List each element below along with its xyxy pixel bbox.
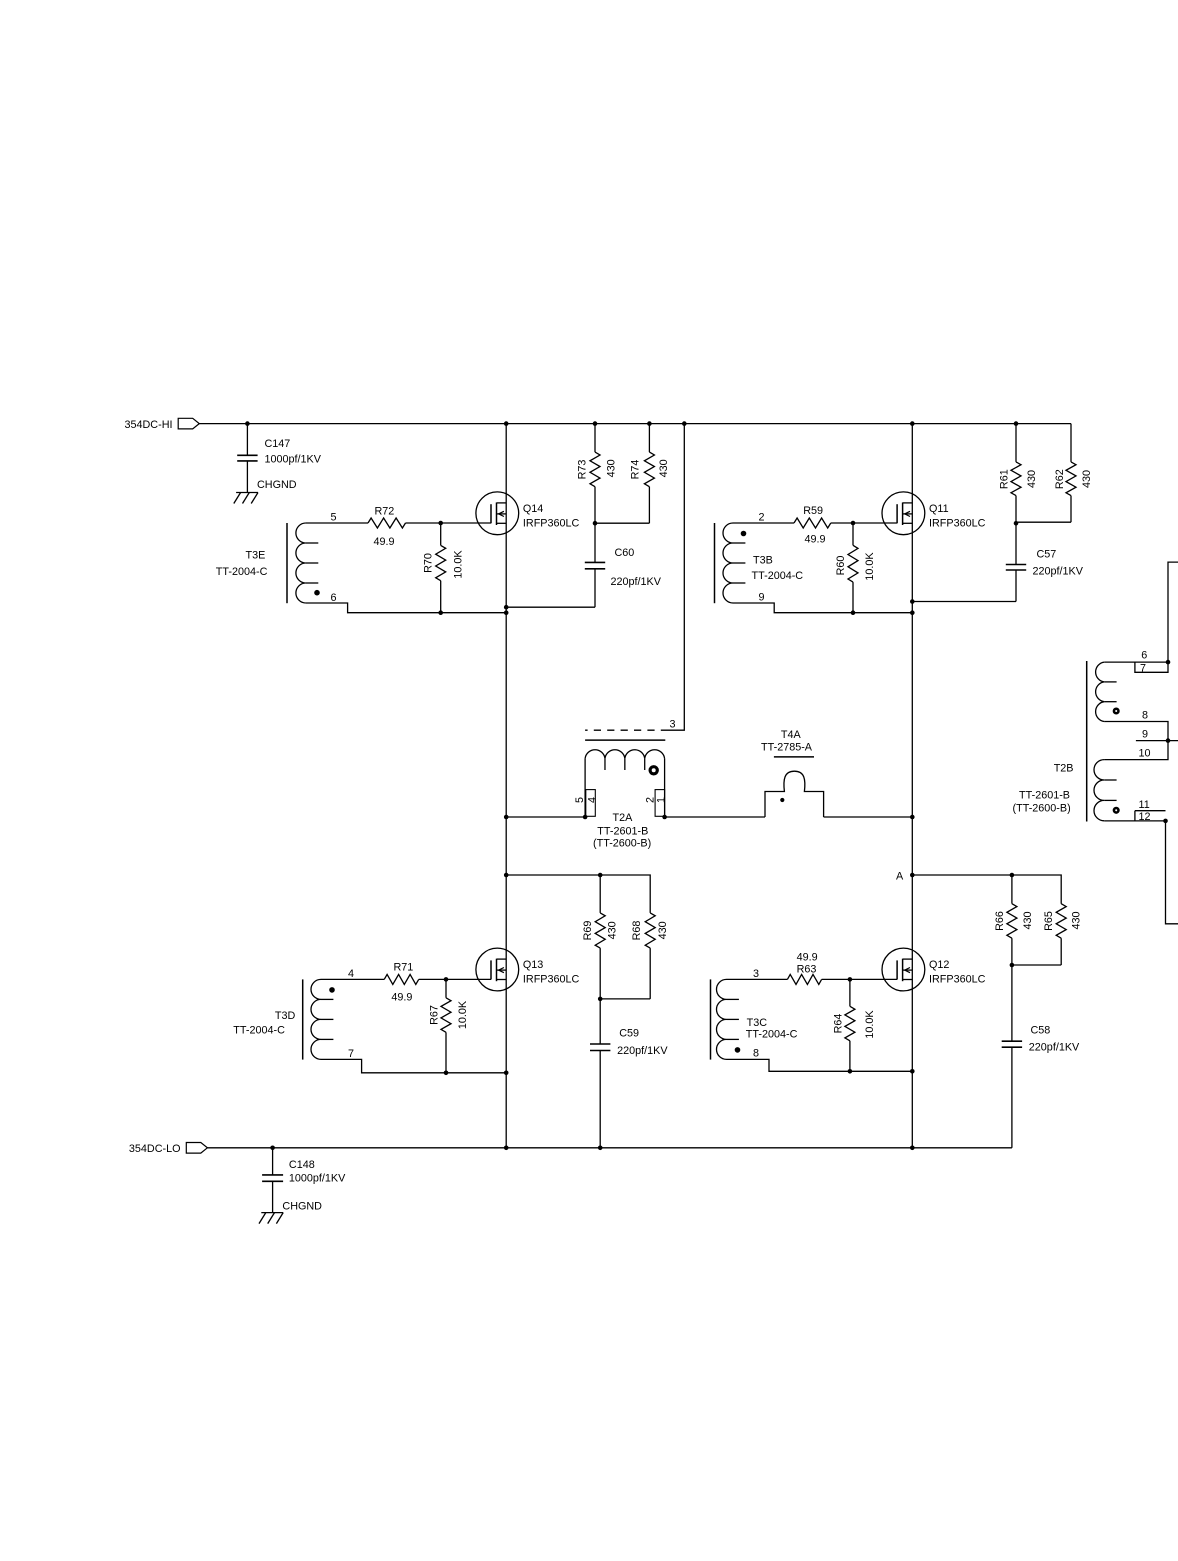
wire 354DC-HI rail (top) (199, 423, 1071, 425)
svg-text:C58: C58 (1031, 1025, 1051, 1037)
wire R62 bottom to R61 (1016, 521, 1071, 523)
junction Q11 gate / R60 (851, 521, 856, 526)
wire R65 bottom to R66 (1012, 964, 1061, 966)
junction R69/R68/C59 node (598, 997, 603, 1002)
svg-text:R70: R70 (423, 553, 435, 573)
T2A polarity ring (650, 767, 657, 774)
junction R69 top (598, 873, 603, 878)
svg-text:CHGND: CHGND (282, 1200, 322, 1212)
junction bottom rail / C59 (598, 1146, 603, 1151)
wire T3C pin3 to R63 (727, 978, 788, 980)
svg-text:430: 430 (1026, 470, 1038, 488)
wire T2B pin11 (1135, 810, 1166, 812)
svg-text:C59: C59 (619, 1027, 639, 1039)
resistor R73 (594, 424, 596, 453)
junction R61/R62/C57 node (1014, 521, 1019, 526)
junction R73/R74/C60 node (593, 521, 598, 526)
capacitor C147 (237, 454, 257, 456)
wire T3D pin4 to R71 (321, 978, 384, 980)
transformer T3D core bar (302, 979, 304, 1059)
svg-text:10: 10 (1139, 748, 1151, 760)
transformer T3D winding (311, 979, 321, 1059)
wire R74 bottom to R73 (595, 522, 649, 524)
transformer T2B upper winding (1096, 662, 1105, 721)
wire left rail to T2A pin5/4 (506, 816, 585, 818)
junction top rail / Q11 drain (910, 421, 915, 426)
svg-text:R72: R72 (375, 506, 395, 518)
junction R67 bottom / gate return (444, 1071, 449, 1076)
svg-text:49.9: 49.9 (805, 534, 826, 546)
wire left half-bridge rail (505, 424, 507, 1148)
junction T2A pin5/4 (583, 815, 588, 820)
junction R70 bottom / gate return (438, 610, 443, 615)
junction Q14 gate / R70 (438, 521, 443, 526)
svg-text:R73: R73 (576, 460, 588, 480)
junction gate return / left rail (top) (504, 610, 509, 615)
wire R68 bottom to R69 (600, 998, 650, 1000)
wire C147 top lead (246, 424, 248, 456)
wire T2A pin1 lead (664, 759, 666, 817)
svg-text:TT-2601-B: TT-2601-B (597, 826, 648, 838)
svg-text:R63: R63 (797, 963, 817, 975)
transformer T2A winding (585, 750, 664, 759)
transformer T3C core bar (710, 979, 712, 1059)
svg-text:TT-2004-C: TT-2004-C (752, 570, 804, 582)
T3D polarity dot (329, 987, 335, 993)
transformer T3E winding (296, 523, 306, 603)
resistor R70 (436, 545, 446, 580)
svg-text:430: 430 (1081, 470, 1093, 488)
svg-text:Q13: Q13 (523, 959, 543, 971)
svg-text:TT-2004-C: TT-2004-C (233, 1025, 285, 1037)
wire T2B pin6/7 feed up (1168, 562, 1178, 662)
svg-text:8: 8 (1142, 710, 1148, 722)
wire T2B pin10 (1104, 741, 1168, 760)
resistor R71 (384, 974, 419, 984)
transformer T3B winding (723, 523, 733, 603)
wire T3E pin5 to R72 (306, 522, 368, 524)
wire T2B pin6 (1104, 661, 1168, 663)
junction gate return / right rail (top) (910, 610, 915, 615)
transformer T3B core bar (714, 523, 716, 603)
wire 354DC-LO rail (bottom) (208, 1147, 1012, 1149)
svg-text:220pf/1KV: 220pf/1KV (617, 1045, 668, 1057)
svg-text:430: 430 (606, 459, 618, 477)
transformer T4A body (765, 771, 824, 817)
svg-text:(TT-2600-B): (TT-2600-B) (593, 838, 651, 850)
junction Q14 source / C60 wire (504, 605, 509, 610)
svg-text:354DC-LO: 354DC-LO (129, 1143, 181, 1155)
capacitor C60 (585, 561, 605, 563)
ground CHGND (top) (236, 492, 258, 494)
T2B upper polarity ring (1114, 709, 1119, 714)
svg-text:T3D: T3D (275, 1010, 296, 1022)
junction Q13 gate / R67 (444, 977, 449, 982)
svg-text:R69: R69 (582, 921, 594, 941)
wire T3C pin8 return (727, 1059, 913, 1071)
wire R72 to Q14 gate (406, 522, 492, 524)
wire right half-bridge rail (911, 424, 913, 1148)
svg-text:1: 1 (656, 797, 668, 803)
junction top rail / T2A pin3 feed (682, 421, 687, 426)
junction R64 bottom / gate return (848, 1069, 853, 1074)
wire R63 to Q12 gate (822, 978, 898, 980)
junction bottom rail / Q13 source (504, 1146, 509, 1151)
svg-text:7: 7 (1140, 663, 1146, 675)
svg-text:R61: R61 (999, 469, 1011, 489)
svg-text:49.9: 49.9 (374, 536, 395, 548)
svg-text:R65: R65 (1043, 911, 1055, 931)
wire C57 bottom to Q11 source (912, 601, 1016, 603)
T3C polarity dot (735, 1047, 741, 1053)
capacitor C148 (262, 1174, 283, 1176)
T2A pin box 2/1 (655, 790, 665, 817)
wire T2A pin3 dashed (585, 729, 668, 731)
svg-text:IRFP360LC: IRFP360LC (929, 974, 986, 986)
svg-text:R59: R59 (803, 505, 823, 517)
svg-text:430: 430 (606, 921, 618, 939)
svg-text:220pf/1KV: 220pf/1KV (1033, 566, 1084, 578)
resistor R68 (645, 913, 655, 948)
junction Q12 gate / R64 (848, 977, 853, 982)
svg-text:354DC-HI: 354DC-HI (125, 419, 173, 431)
wire T3E pin6 return (306, 603, 506, 613)
transformer T2B lower winding (1094, 760, 1104, 821)
wire T2B pin8 (1104, 722, 1168, 741)
svg-text:IRFP360LC: IRFP360LC (523, 518, 580, 530)
wire T2A pin2/1 to T4A (665, 816, 765, 818)
junction bottom rail / Q12 source (910, 1146, 915, 1151)
svg-text:C57: C57 (1037, 549, 1057, 561)
wire T2A pin3 feed (668, 424, 684, 731)
svg-text:220pf/1KV: 220pf/1KV (1029, 1042, 1080, 1054)
T2B lower polarity ring (1114, 808, 1119, 813)
svg-text:A: A (896, 871, 904, 883)
svg-text:9: 9 (759, 591, 765, 603)
svg-text:9: 9 (1142, 729, 1148, 741)
wire C148 top lead (272, 1148, 274, 1175)
svg-text:10.0K: 10.0K (457, 1000, 469, 1029)
svg-text:430: 430 (1022, 911, 1034, 929)
T3B polarity dot (741, 531, 747, 537)
junction R66 top (1010, 873, 1015, 878)
svg-text:8: 8 (753, 1048, 759, 1060)
transformer T3E core bar (286, 523, 288, 603)
resistor R60 (852, 523, 854, 545)
T4A polarity dot (780, 798, 784, 802)
svg-text:TT-2601-B: TT-2601-B (1019, 790, 1070, 802)
resistor R66 (1011, 875, 1013, 904)
svg-text:49.9: 49.9 (391, 992, 412, 1004)
junction left rail / T2A wire (504, 815, 509, 820)
svg-text:T3C: T3C (747, 1017, 768, 1029)
connector 354DC-LO flag (186, 1143, 207, 1154)
junction top rail / Q14 drain (504, 421, 509, 426)
capacitor C57 (1006, 564, 1026, 566)
wire C59 top lead (599, 999, 601, 1044)
svg-text:10.0K: 10.0K (864, 1010, 876, 1039)
junction gate return / left rail (bottom) (504, 1071, 509, 1076)
wire node A to R65 (912, 875, 1061, 904)
svg-text:TT-2785-A: TT-2785-A (761, 742, 813, 754)
svg-text:Q12: Q12 (929, 959, 949, 971)
T2B pin 12 box (1134, 811, 1136, 821)
junction T2B pin 9 (1166, 738, 1171, 743)
junction top rail / R74 (647, 421, 652, 426)
svg-text:11: 11 (1139, 799, 1150, 811)
junction top rail / R73 (593, 421, 598, 426)
resistor R62 (1070, 424, 1072, 462)
junction right rail / T4A wire (910, 815, 915, 820)
resistor R61 (1015, 424, 1017, 462)
svg-text:TT-2004-C: TT-2004-C (746, 1028, 798, 1040)
junction R66/R65/C58 node (1010, 963, 1015, 968)
resistor R72 (368, 518, 406, 528)
svg-text:Q14: Q14 (523, 503, 543, 515)
resistor R59 (794, 518, 831, 528)
svg-text:5: 5 (574, 797, 586, 803)
resistor R69 (599, 875, 601, 913)
transformer T3C winding (717, 979, 727, 1059)
transistor Q11 (882, 492, 925, 535)
svg-text:C148: C148 (289, 1159, 315, 1171)
wire left rail to R68 (506, 875, 650, 913)
transistor Q14 (476, 492, 519, 535)
svg-text:R71: R71 (394, 962, 414, 974)
wire T2A pin5 lead (584, 759, 586, 817)
svg-text:10.0K: 10.0K (864, 552, 876, 581)
svg-text:1000pf/1KV: 1000pf/1KV (289, 1173, 346, 1185)
junction node A on right rail (910, 873, 915, 878)
svg-text:430: 430 (657, 921, 669, 939)
junction bottom rail / C148 (270, 1146, 275, 1151)
svg-text:R62: R62 (1054, 469, 1066, 489)
svg-text:220pf/1KV: 220pf/1KV (611, 576, 662, 588)
resistor R65 (1056, 904, 1066, 939)
connector 354DC-HI flag (178, 418, 199, 429)
wire T3B pin2 to R59 (733, 522, 794, 524)
svg-text:49.9: 49.9 (797, 952, 818, 964)
svg-text:R68: R68 (631, 921, 643, 941)
wire T4A to right rail (824, 816, 913, 818)
capacitor C58 (1002, 1040, 1022, 1042)
ground CHGND (bottom) (261, 1212, 283, 1214)
svg-text:C147: C147 (265, 438, 291, 450)
wire T3B pin9 return (733, 603, 912, 613)
wire C60 bottom to Q14 source (506, 606, 595, 608)
T2B pin 7 box (1135, 662, 1168, 672)
resistor R63 (787, 974, 821, 984)
svg-text:(TT-2600-B): (TT-2600-B) (1013, 803, 1071, 815)
svg-text:R74: R74 (629, 460, 641, 480)
wire C58 top lead (1011, 965, 1013, 1041)
svg-text:430: 430 (1071, 911, 1083, 929)
svg-text:R64: R64 (832, 1014, 844, 1034)
T3E polarity dot (314, 590, 320, 596)
svg-text:IRFP360LC: IRFP360LC (523, 974, 580, 986)
wire T3D pin7 return (321, 1059, 506, 1072)
transformer T4A core bar (774, 756, 814, 758)
junction top rail / C147 (245, 421, 250, 426)
svg-text:CHGND: CHGND (257, 479, 297, 491)
wire T2B pin11/12 feed down (1166, 821, 1178, 924)
wire C57 top lead (1015, 523, 1017, 564)
wire R59 to Q11 gate (831, 522, 897, 524)
resistor R67 (445, 979, 447, 997)
T2A pin box 5/4 (586, 790, 596, 817)
wire T2B pin12 (1104, 820, 1165, 822)
svg-text:C60: C60 (615, 547, 635, 559)
svg-text:4: 4 (348, 968, 354, 980)
svg-text:Q11: Q11 (929, 503, 949, 515)
svg-text:T3B: T3B (753, 554, 773, 566)
junction R60 bottom / gate return (851, 610, 856, 615)
junction T2A pin2/1 (662, 815, 667, 820)
svg-text:T2B: T2B (1054, 763, 1074, 775)
svg-text:R66: R66 (994, 911, 1006, 931)
svg-text:3: 3 (670, 719, 676, 731)
transistor Q13 (476, 948, 519, 991)
wire R71 to Q13 gate (419, 978, 491, 980)
svg-text:430: 430 (658, 459, 670, 477)
svg-text:4: 4 (586, 797, 598, 803)
wire T2B pin9 (1136, 740, 1178, 742)
svg-text:7: 7 (348, 1048, 354, 1060)
svg-text:T2A: T2A (613, 812, 634, 824)
junction gate return / right rail (bottom) (910, 1069, 915, 1074)
junction left rail / lower wire (504, 873, 509, 878)
resistor R74 (648, 424, 650, 453)
svg-text:TT-2004-C: TT-2004-C (216, 566, 268, 578)
svg-text:T3E: T3E (246, 550, 266, 562)
svg-text:3: 3 (753, 968, 759, 980)
resistor R64 (849, 979, 851, 1006)
junction top rail / R61 (1014, 421, 1019, 426)
svg-text:6: 6 (1141, 650, 1147, 662)
svg-text:2: 2 (759, 512, 765, 524)
transistor Q12 (882, 948, 925, 991)
junction T2B pins 11/12 (1163, 819, 1168, 824)
capacitor C59 (590, 1043, 610, 1045)
svg-text:R60: R60 (835, 556, 847, 576)
svg-text:R67: R67 (429, 1005, 441, 1025)
svg-text:T4A: T4A (781, 729, 802, 741)
svg-text:IRFP360LC: IRFP360LC (929, 518, 986, 530)
svg-text:10.0K: 10.0K (453, 550, 465, 579)
transformer T2A core bar (585, 739, 665, 741)
junction T2B pins 6/7 (1166, 660, 1171, 665)
svg-text:5: 5 (331, 512, 337, 524)
svg-text:1000pf/1KV: 1000pf/1KV (265, 453, 322, 465)
transformer T2B core bar (1086, 661, 1088, 822)
junction Q11 source / C57 wire (910, 599, 915, 604)
wire C60 top lead (594, 523, 596, 562)
